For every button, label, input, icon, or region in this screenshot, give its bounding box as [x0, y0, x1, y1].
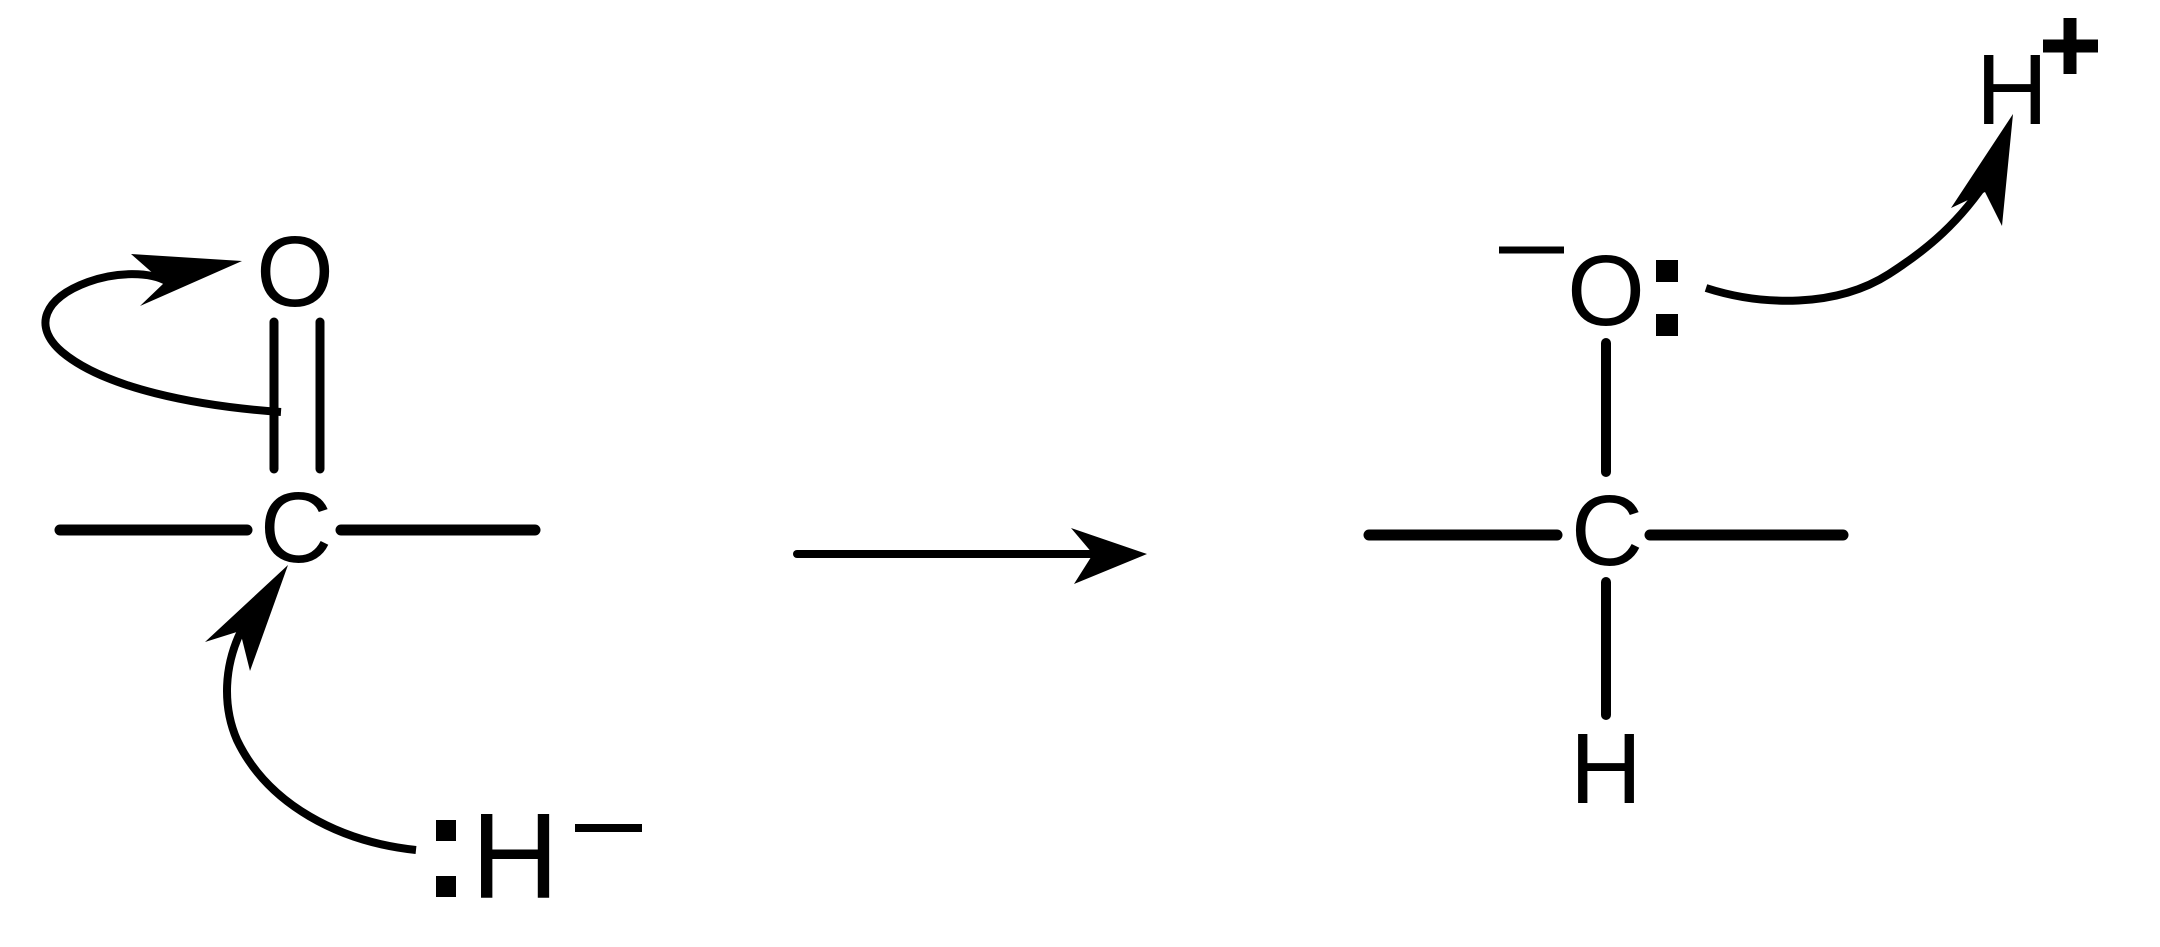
lone pair dot (lower): [1656, 314, 1678, 336]
svg-text:O: O: [256, 216, 334, 328]
svg-text:H: H: [1976, 34, 2048, 146]
proton positive charge (plus, horizontal bar): [2043, 40, 2098, 53]
curved arrow 1: pi-bond electrons to oxygen (shaft): [45, 274, 281, 412]
hydride negative charge (minus): [575, 824, 642, 832]
curved arrow 1: arrowhead at O: [131, 254, 242, 306]
svg-text:C: C: [1571, 475, 1643, 587]
svg-text:H: H: [471, 788, 559, 924]
double bond C=O (right line): [316, 322, 325, 469]
svg-text:C: C: [260, 472, 332, 584]
svg-text:H: H: [1570, 713, 1642, 825]
curved arrow 2: hydride attacking carbonyl carbon (shaft): [227, 618, 416, 850]
bond O-C: [1601, 343, 1611, 472]
reaction arrowhead: [1071, 528, 1147, 584]
bond C to left R group: [1369, 530, 1557, 541]
proton positive charge (plus, vertical bar): [2064, 18, 2077, 74]
double bond C=O (left line): [270, 322, 279, 469]
reaction arrow shaft: [797, 550, 1098, 558]
svg-text:O: O: [1567, 235, 1645, 347]
curved arrow 2: arrowhead at C: [205, 565, 288, 671]
bond C to left R group: [60, 525, 247, 536]
curved arrow 3: arrowhead at H+: [1951, 114, 2013, 226]
bond C to right R group: [341, 525, 535, 536]
curved arrow 3: oxygen lone pair toward proton (shaft): [1706, 176, 1990, 301]
alkoxide negative charge (minus): [1499, 247, 1564, 254]
bond C-H: [1601, 582, 1611, 715]
bond C to right R group: [1650, 530, 1843, 541]
lone pair dot (upper): [1656, 260, 1678, 282]
hydride ion :H- lone pair dot (bottom): [436, 876, 456, 897]
hydride ion :H- lone pair dot (top): [436, 820, 456, 841]
